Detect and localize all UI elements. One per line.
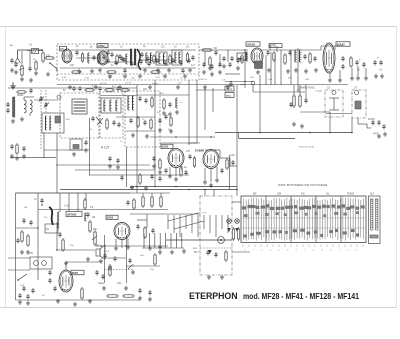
- cap mid3: [117, 123, 120, 125]
- audio caps extra: [103, 254, 106, 256]
- ground pot: [21, 77, 23, 79]
- svg-text:UCH81: UCH81: [247, 42, 256, 46]
- trimmer cap 1: [39, 97, 42, 99]
- wire T1: [108, 49, 129, 51]
- wire ubc: [56, 222, 58, 250]
- svg-text:+: +: [359, 58, 361, 62]
- strip extra caps: [118, 55, 121, 57]
- svg-text:0,1: 0,1: [29, 43, 33, 47]
- wire y165: [56, 164, 150, 166]
- svg-text:SKY: SKY: [194, 252, 199, 254]
- strip left grounds: [11, 68, 13, 70]
- svg-text:22K 1n: 22K 1n: [200, 79, 208, 81]
- wire contact top: [204, 190, 206, 196]
- svg-text:EAB80: EAB80: [195, 149, 204, 153]
- bus y88: [8, 87, 137, 89]
- contact zigzag: [168, 213, 198, 221]
- UBC81 label: [66, 212, 82, 217]
- cap left a: [6, 103, 9, 105]
- audio dots: [100, 245, 102, 247]
- tube V4 label: [336, 42, 350, 46]
- svg-text:OM: OM: [277, 193, 281, 196]
- strip caps extra: [228, 63, 231, 65]
- svg-text:35D3: 35D3: [162, 145, 169, 149]
- wire strip bottom: [60, 67, 196, 69]
- coil bar audio: [57, 212, 59, 228]
- contact lower grounds: [159, 250, 161, 252]
- vert wires conv: [265, 55, 267, 85]
- arrow contact 3: [208, 250, 212, 254]
- svg-text:1 Ta: 1 Ta: [64, 205, 69, 208]
- wire y143b: [189, 142, 197, 144]
- ground strip1: [157, 68, 159, 70]
- contact dashed y248: [200, 247, 232, 249]
- box B2 inner: [355, 101, 361, 109]
- box B1 inner: [329, 97, 339, 99]
- tuning gang dashed: [40, 90, 42, 150]
- parts mid strip: [110, 53, 113, 55]
- strip row2 caps a: [106, 59, 109, 61]
- mid wire y117: [116, 116, 155, 118]
- junction RM: [259, 132, 261, 134]
- svg-text:OC: OC: [301, 193, 305, 196]
- cap mid2: [112, 121, 115, 123]
- dark blob under V3: [255, 61, 263, 69]
- bus y85 left: [57, 84, 245, 86]
- choke dark curve: [49, 207, 53, 225]
- vert x245b: [244, 50, 246, 88]
- strip verticals a: [204, 52, 206, 66]
- ground input: [30, 78, 32, 80]
- electrolytic C13: [355, 61, 358, 63]
- mid box cap: [138, 97, 141, 99]
- box lower: [70, 139, 82, 150]
- IF can T4: [101, 98, 121, 113]
- mid wire y131: [126, 130, 155, 132]
- vert RM wires: [293, 85, 295, 95]
- dashed box T4: [99, 92, 123, 138]
- svg-text:Telaio: Telaio: [98, 283, 105, 285]
- comb coil L3: [145, 53, 147, 63]
- ground 35D3: [169, 174, 171, 176]
- fono cluster caps: [371, 121, 374, 123]
- cap C14: [362, 63, 365, 65]
- ground R7b: [209, 66, 211, 68]
- tube EAB80: [203, 150, 219, 169]
- ground conv: [230, 82, 232, 84]
- caps right 36D2: [136, 225, 139, 227]
- contact dashdot box: [200, 196, 232, 275]
- cap below tubes: [184, 171, 187, 173]
- bank tick marks: [242, 245, 244, 248]
- page top edge: [0, 26, 397, 28]
- wire y137 center: [150, 136, 215, 138]
- svg-text:UBT802: UBT802: [67, 213, 77, 217]
- caps bl: [22, 287, 25, 289]
- resistor R7: [203, 49, 211, 51]
- svg-text:CV: CV: [354, 88, 358, 90]
- wire strip2 bottom: [240, 84, 348, 86]
- svg-text:FONO: FONO: [368, 118, 375, 121]
- svg-text:P: P: [132, 263, 134, 267]
- svg-text:CS: CS: [327, 88, 331, 90]
- coil L1: [32, 49, 39, 54]
- wire contact-bank: [232, 201, 241, 203]
- bl extra wires: [15, 285, 17, 300]
- ground right 36D2: [149, 246, 151, 248]
- junction B2: [351, 132, 353, 134]
- audio res pair: [133, 200, 135, 208]
- cap C11b: [313, 57, 316, 59]
- bank narrow strips: [371, 199, 373, 230]
- svg-text:A 115 µF TIGM: A 115 µF TIGM: [299, 146, 314, 149]
- svg-text:10K: 10K: [305, 79, 309, 81]
- wire left col: [16, 227, 39, 229]
- arrow P: [128, 265, 132, 269]
- vert x44: [43, 133, 45, 158]
- resistor R11: [350, 58, 352, 66]
- bank separator lines: [265, 196, 267, 243]
- page bottom edge: [0, 307, 397, 309]
- vert x155: [154, 80, 156, 187]
- comb coil L2: [87, 53, 89, 63]
- resistor RM2: [299, 96, 301, 106]
- small circle node: [57, 95, 61, 99]
- IF can T1: [156, 52, 167, 65]
- left small parts2: [10, 145, 13, 147]
- vert x205: [204, 88, 206, 130]
- dashed y269: [104, 269, 133, 271]
- ground V1: [78, 69, 80, 71]
- vert x237: [236, 85, 238, 196]
- osc comb2: [49, 116, 51, 130]
- resistor ubc3: [89, 222, 91, 231]
- wire long y138: [239, 138, 295, 140]
- wire y143 center: [160, 142, 200, 144]
- svg-text:0,1: 0,1: [379, 69, 383, 72]
- vert x57: [56, 133, 58, 193]
- svg-text:T 0,5: T 0,5: [316, 90, 322, 93]
- bus y187: [130, 186, 237, 188]
- contact grounds: [208, 275, 210, 277]
- vert x197: [196, 80, 198, 143]
- switch arrow bl: [18, 274, 27, 280]
- dashed box mid: [125, 91, 160, 147]
- mid wire y95: [100, 95, 137, 97]
- tube 35D3 label: [161, 144, 173, 148]
- wire y258: [8, 257, 30, 259]
- IF can T3: [72, 99, 87, 114]
- strip 200 grounds: [203, 70, 205, 72]
- dark swoosh: [137, 49, 141, 70]
- cap right tube: [231, 161, 234, 163]
- output parts: [95, 271, 98, 273]
- dashdot box B1: [325, 90, 343, 117]
- box B1 circle: [332, 91, 336, 95]
- fono ground: [378, 134, 380, 136]
- ground left 35D3: [153, 164, 155, 166]
- wire 35F6 top: [65, 262, 67, 270]
- cap C11: [303, 55, 306, 57]
- wire mid: [199, 49, 248, 51]
- mid caps extra: [158, 119, 161, 121]
- svg-text:47K: 47K: [250, 77, 254, 79]
- dashdot box B2: [352, 90, 366, 118]
- svg-text:50K: 50K: [93, 229, 98, 231]
- ground switch: [47, 72, 49, 74]
- ground ubc: [65, 261, 67, 263]
- bl extra caps: [18, 294, 21, 296]
- svg-text:1n 8p: 1n 8p: [152, 83, 158, 85]
- tube 35F6: [59, 270, 73, 292]
- lamp symbol 2: [235, 219, 240, 224]
- ground top mid: [12, 82, 14, 86]
- ground ferrite: [12, 119, 14, 121]
- cap between tubes: [188, 155, 191, 157]
- vert x69: [68, 193, 70, 211]
- wire step1: [205, 149, 220, 151]
- cap C9: [222, 57, 225, 59]
- svg-text:0,5: 0,5: [161, 46, 165, 49]
- svg-text:6,3V: 6,3V: [62, 77, 67, 79]
- comb coil L5b: [299, 50, 301, 62]
- vert x104: [104, 235, 106, 283]
- svg-text:1K: 1K: [136, 66, 139, 68]
- comb coil L5: [294, 50, 296, 62]
- resistor R4: [97, 55, 99, 62]
- midcol cap: [168, 103, 171, 105]
- FM shield dashed box: [57, 44, 199, 80]
- strip left extra: [10, 59, 13, 61]
- wire y270: [8, 269, 30, 271]
- mid caps: [91, 117, 94, 119]
- drop v4a: [329, 73, 331, 78]
- strip wire seg a: [76, 57, 100, 59]
- audio wire x147: [146, 214, 148, 228]
- wire step2: [220, 157, 230, 159]
- resistor bottom1: [108, 295, 117, 297]
- label stack 12TC3: [225, 86, 234, 91]
- svg-text:mod. MF28 - MF41 - MF128 - MF1: mod. MF28 - MF41 - MF128 - MF141: [243, 291, 359, 301]
- vert x260: [259, 75, 261, 133]
- svg-text:35F6: 35F6: [72, 271, 79, 275]
- resistor R3: [81, 54, 83, 61]
- svg-text:1M: 1M: [15, 62, 18, 65]
- strip row2 caps b: [139, 60, 142, 62]
- label block 12TC: [269, 44, 282, 48]
- cap ubc1: [58, 233, 61, 235]
- wire B1 drop: [329, 117, 331, 133]
- left col caps: [22, 219, 25, 221]
- junction dots bus: [136, 186, 138, 188]
- vert x229 low: [229, 155, 231, 190]
- tube 35F6 label: [71, 270, 84, 275]
- wire RM h2: [326, 113, 352, 115]
- bank contact verticals: [243, 199, 245, 241]
- resistor RM1: [293, 96, 295, 106]
- tube V3: [251, 48, 263, 64]
- caps left 35F6: [48, 271, 51, 273]
- svg-text:10,7: 10,7: [104, 46, 109, 49]
- pins 35D3 parts: [164, 169, 167, 171]
- vert x137: [136, 85, 138, 193]
- ground EAB80: [204, 180, 206, 182]
- tube V2 label: [97, 44, 108, 48]
- audio grounds extra: [109, 266, 111, 268]
- resistor R6: [186, 54, 188, 61]
- wire v3 vert: [269, 44, 271, 50]
- cap C10: [266, 51, 269, 53]
- svg-text:4n7 2p: 4n7 2p: [100, 83, 107, 85]
- resistor ubc2: [84, 200, 86, 208]
- grounds bus: [69, 85, 71, 87]
- left bottom box: [30, 257, 52, 269]
- wire left riser: [21, 51, 23, 64]
- cluster right caps: [373, 61, 376, 63]
- cap audio in: [40, 199, 43, 201]
- cap C10b: [288, 51, 291, 53]
- mid caps y158: [108, 157, 111, 159]
- wire to rect: [261, 49, 321, 51]
- tube 36D2 label: [106, 215, 118, 219]
- tube 36D2 pins: [115, 239, 117, 246]
- svg-text:150: 150: [46, 55, 51, 58]
- IF can T2: [172, 50, 182, 65]
- resistor R1: [42, 53, 44, 61]
- cap C12: [341, 57, 344, 59]
- svg-text:POSIZ. BOTTONIERA CON TASTI IN: POSIZ. BOTTONIERA CON TASTI IN BASE: [278, 184, 328, 187]
- label box B4AA: [237, 53, 247, 60]
- tube EAB80 pins: [204, 168, 206, 180]
- contact comb lower: [143, 233, 145, 248]
- cap near box lower: [84, 141, 87, 143]
- page left edge: [5, 27, 7, 308]
- vert x189: [188, 80, 190, 145]
- ground C9: [223, 64, 225, 66]
- midcol grounds: [163, 111, 165, 113]
- wire y300: [40, 299, 140, 301]
- cap C3: [92, 56, 95, 58]
- vert x78: [77, 193, 79, 211]
- resistor R8: [273, 53, 275, 60]
- svg-text:12TC: 12TC: [270, 45, 276, 48]
- audio res extra: [154, 255, 156, 264]
- wire conv y92: [253, 91, 305, 93]
- cap RM: [304, 99, 307, 101]
- svg-text:FONO: FONO: [347, 193, 354, 196]
- svg-text:PU: PU: [30, 253, 34, 255]
- osc box: [42, 113, 64, 133]
- cap left b: [6, 109, 9, 111]
- ground 35F6: [57, 299, 59, 301]
- resistor R9: [284, 55, 286, 63]
- tube V4 tall: [323, 43, 335, 73]
- contact baseline upper: [166, 239, 232, 241]
- circle node conv: [251, 81, 255, 85]
- tube 35D3: [168, 149, 184, 168]
- tube V1 label: [60, 46, 67, 51]
- wire conv y81: [225, 81, 253, 83]
- bank row lines: [241, 207, 366, 209]
- wire conv y74: [225, 73, 240, 75]
- cap C4: [140, 53, 143, 55]
- resistor ubc1: [62, 240, 64, 250]
- tube V1: [62, 49, 72, 63]
- bank narrow strip text ticks: [371, 199, 373, 201]
- resistor bottom2: [124, 295, 133, 297]
- wire am1: [34, 99, 58, 101]
- resistor ladder audio: [142, 197, 144, 206]
- tube V3 label: [246, 42, 260, 46]
- osc blob: [55, 116, 61, 123]
- top row caps: [72, 87, 75, 89]
- contact resistors pair: [232, 229, 234, 239]
- antenna input wire: [18, 49, 44, 51]
- vert x60: [59, 193, 61, 212]
- grid comb V3: [245, 52, 247, 61]
- res left 35D3: [159, 160, 161, 168]
- caps y178: [150, 175, 153, 177]
- vert x213: [212, 88, 214, 112]
- strip 200 row caps: [202, 63, 205, 65]
- mid box grounds: [132, 133, 134, 135]
- wire y170: [75, 169, 155, 171]
- left col resistors: [21, 232, 23, 241]
- ground box lower: [73, 152, 75, 154]
- arrow contact 2: [235, 228, 239, 232]
- svg-text:4700: 4700: [373, 133, 379, 136]
- ferrite coil: [24, 100, 26, 104]
- mid box combs: [127, 96, 129, 110]
- left col grounds: [21, 250, 23, 252]
- svg-text:1M: 1M: [24, 207, 27, 209]
- ladder tops: [142, 193, 144, 195]
- label stack 1TC2: [225, 93, 234, 98]
- top row resistor: [18, 91, 25, 93]
- wire y158: [10, 157, 56, 159]
- resistor R5: [169, 56, 171, 63]
- wire top strip: [71, 49, 130, 51]
- tube 36D2: [114, 223, 130, 240]
- osc comb: [45, 116, 47, 130]
- wire RM drop: [357, 118, 359, 124]
- wire step3: [230, 165, 237, 167]
- contact caps: [206, 251, 209, 253]
- cap row mid audio: [120, 176, 123, 178]
- wire label stack: [196, 89, 225, 91]
- tube V2: [98, 51, 108, 65]
- antenna fork: [15, 58, 18, 63]
- comb audio2: [84, 213, 86, 221]
- comb coil L4: [150, 53, 152, 63]
- vert x253: [252, 85, 254, 92]
- bank outer box: [241, 196, 366, 243]
- resistor right tube: [226, 160, 228, 168]
- block top y193: [16, 192, 131, 194]
- vert x126: [126, 235, 128, 283]
- wire RM h1: [300, 111, 330, 113]
- midcol resistor: [163, 100, 165, 108]
- resistor 35F6: [81, 289, 83, 298]
- speaker: [96, 249, 100, 256]
- cap C7: [191, 56, 194, 58]
- FM inner dashed line: [57, 73, 199, 75]
- ferrite rod: [13, 97, 15, 117]
- wire y246: [95, 245, 168, 247]
- grounds row bottom: [103, 286, 105, 288]
- left small parts: [16, 145, 18, 153]
- svg-text:FERR.: FERR.: [17, 95, 24, 97]
